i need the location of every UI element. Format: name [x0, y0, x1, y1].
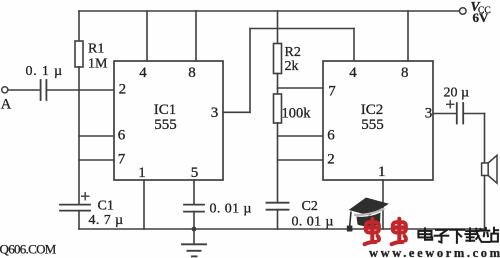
- wire speaker top lead: [484, 114, 486, 164]
- svg-text:0. 1 µ: 0. 1 µ: [26, 64, 63, 79]
- wire IC1 pin6: [79, 135, 114, 137]
- wire IC1 pin1 to ground rail: [143, 180, 145, 229]
- node junction dot ground: [192, 227, 197, 232]
- resistor 100k bottom lead down to C2: [277, 123, 279, 203]
- watermark mortarboard logo: [347, 198, 389, 232]
- resistor 100k body: [274, 94, 282, 123]
- wire IC1 pin3 out: [223, 111, 250, 113]
- capacitor C1 plus sign: [82, 193, 89, 200]
- wire IC2 pin8 to rail: [407, 11, 409, 61]
- wire IC1 pin7: [79, 159, 114, 161]
- svg-text:1: 1: [138, 165, 146, 181]
- wire top VCC rail: [79, 10, 459, 12]
- op-amp IC1 555 box: [114, 61, 223, 180]
- wire C1 bottom lead: [78, 211, 80, 229]
- svg-text:A: A: [1, 97, 12, 113]
- svg-text:IC1: IC1: [154, 102, 177, 118]
- node VCC terminal: [460, 8, 467, 15]
- wire pin3 horizontal to IC2 pin4: [250, 28, 354, 30]
- capacitor C2 0.01u plates: [267, 203, 289, 210]
- resistor R1 1M body: [75, 41, 83, 67]
- svg-text:8: 8: [401, 65, 409, 81]
- svg-text:6: 6: [327, 128, 335, 144]
- wire bottom ground rail: [79, 228, 485, 230]
- resistor R2 2k body: [274, 44, 282, 74]
- wire IC1 pin8 to rail: [195, 11, 197, 61]
- ground symbol: [182, 229, 206, 256]
- svg-text:4. 7 µ: 4. 7 µ: [89, 213, 124, 228]
- wire IC2 pin4 lead: [353, 29, 355, 62]
- wire IC2 pin3 out: [433, 113, 457, 115]
- svg-text:2: 2: [327, 152, 335, 168]
- svg-text:6: 6: [118, 128, 126, 144]
- svg-text:2: 2: [119, 82, 127, 98]
- wire cap to IC1 pin2: [46, 89, 114, 91]
- watermark dianzi xiazaizhan characters: [418, 228, 498, 243]
- svg-text:8: 8: [188, 65, 196, 81]
- svg-text:4: 4: [349, 65, 357, 81]
- svg-text:R2: R2: [285, 45, 301, 60]
- svg-text:555: 555: [154, 117, 177, 133]
- wire 0.01u cap to rail: [193, 212, 195, 229]
- node A input terminal: [2, 87, 8, 93]
- svg-text:0. 01 µ: 0. 01 µ: [292, 215, 334, 230]
- wire IC2 pin6: [278, 135, 324, 137]
- watermark chongchong red characters: [365, 219, 406, 244]
- svg-text:C1: C1: [98, 199, 114, 214]
- svg-text:0. 01 µ: 0. 01 µ: [210, 201, 252, 216]
- wire R2/100k junction to IC2 pin7: [278, 87, 324, 89]
- svg-text:R1: R1: [88, 42, 104, 57]
- label VCC: [471, 0, 491, 25]
- resistor R2 top lead: [277, 11, 279, 44]
- resistor R2 bottom lead: [277, 74, 279, 95]
- svg-text:3: 3: [211, 105, 219, 121]
- resistor R1 bottom lead: [78, 67, 80, 90]
- capacitor 0.1u input coupling: [41, 80, 47, 100]
- svg-text:20 µ: 20 µ: [444, 85, 470, 100]
- capacitor 20u output plates: [457, 103, 463, 124]
- capacitor 20u plus sign: [447, 101, 454, 108]
- wire left vertical R1/pin2 down to C1: [78, 90, 80, 204]
- svg-text:7: 7: [328, 83, 336, 99]
- svg-text:5: 5: [191, 165, 199, 181]
- wire IC2 pin1 to ground rail: [382, 180, 384, 229]
- svg-text:6V: 6V: [473, 10, 490, 25]
- wire speaker bottom lead: [484, 176, 486, 230]
- op-amp IC2 555 box: [323, 61, 433, 180]
- svg-text:7: 7: [118, 152, 126, 168]
- svg-text:555: 555: [361, 117, 384, 133]
- svg-text:IC2: IC2: [361, 102, 384, 118]
- svg-text:100k: 100k: [282, 106, 312, 122]
- wire pin3 vertical up: [249, 29, 251, 113]
- speaker: [482, 155, 497, 183]
- svg-text:2k: 2k: [285, 59, 299, 74]
- wire input A to C coupling cap: [8, 89, 40, 91]
- wire IC1 pin4 to rail: [146, 11, 148, 61]
- wire IC1 pin5 lead: [193, 180, 195, 205]
- capacitor C1 4.7u plates: [60, 205, 90, 211]
- svg-text:C2: C2: [302, 199, 318, 214]
- resistor R1 top lead: [78, 11, 80, 41]
- svg-text:3: 3: [425, 106, 433, 122]
- svg-text:Q606.COM: Q606.COM: [0, 241, 57, 256]
- svg-text:www.eeworm.com: www.eeworm.com: [369, 246, 500, 258]
- wire IC2 pin2: [278, 159, 324, 161]
- svg-text:1M: 1M: [88, 56, 108, 71]
- svg-text:4: 4: [139, 65, 147, 81]
- svg-text:1: 1: [378, 164, 386, 180]
- wire 20u cap to speaker: [463, 113, 484, 115]
- capacitor 0.01u on pin5: [184, 205, 204, 212]
- wire C2 bottom lead: [277, 210, 279, 229]
